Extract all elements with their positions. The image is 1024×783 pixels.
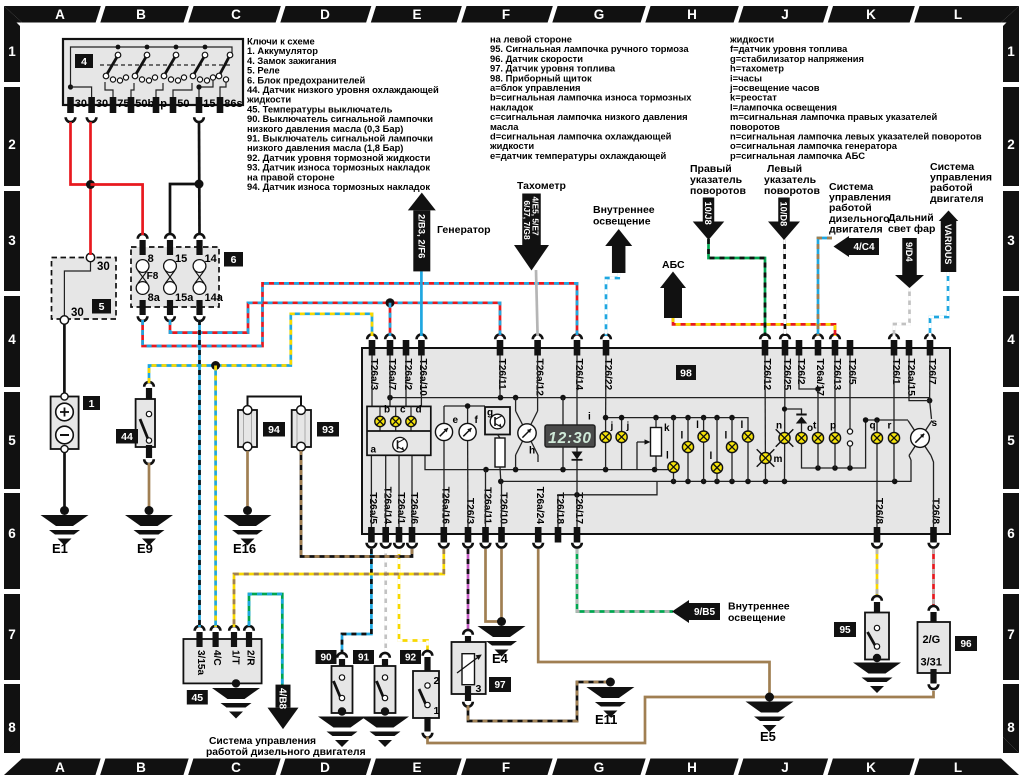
cluster top pin T26/14	[574, 340, 581, 356]
illumination lamp l1	[673, 418, 675, 482]
wire (cyan/yellow) junction to 44 / 45 / T26a/3	[149, 314, 372, 383]
svg-text:d: d	[416, 405, 422, 416]
svg-text:4: 4	[8, 332, 16, 347]
cluster top pin T26/7	[927, 340, 934, 356]
svg-text:l: l	[710, 451, 713, 462]
svg-text:96: 96	[960, 639, 972, 650]
label plate 98	[676, 365, 696, 380]
svg-text:10/J8: 10/J8	[703, 202, 713, 225]
block 45 terminal 1/T	[229, 626, 239, 631]
cluster top pin T26/5	[847, 340, 854, 356]
connector socket under terminal 15	[194, 117, 204, 122]
wire (red/gray) T26/8 to sensor 96	[932, 549, 935, 607]
rheostat k	[655, 418, 657, 470]
block 4 terminal 30 pin	[88, 97, 95, 113]
ground E4	[497, 617, 506, 626]
clock lamp j 2	[621, 418, 623, 470]
svg-text:T26a/12: T26a/12	[533, 359, 544, 397]
speedometer gauge s	[909, 355, 930, 401]
q r feed rail	[866, 419, 908, 421]
svg-text:T26/13: T26/13	[831, 359, 842, 391]
svg-text:c: c	[400, 405, 406, 416]
handbrake switch 95	[872, 596, 882, 601]
svg-text:T26a/24: T26a/24	[534, 487, 545, 525]
block 4 internal dashed line	[100, 64, 232, 66]
cluster top pin T26/2	[796, 340, 803, 356]
svg-text:D: D	[320, 7, 330, 22]
svg-text:4: 4	[81, 56, 87, 68]
cluster internal rail B (ground rail)	[501, 460, 911, 481]
ground E9	[145, 506, 154, 515]
svg-text:a: a	[371, 445, 377, 456]
svg-text:1: 1	[8, 44, 16, 59]
svg-text:3/15a: 3/15a	[195, 650, 206, 675]
svg-text:A: A	[55, 760, 65, 775]
ground E11	[606, 678, 615, 687]
cluster bottom pin T26/10	[498, 527, 505, 543]
svg-text:T26/14: T26/14	[573, 359, 584, 391]
arrow diesel control 4/C4	[834, 236, 850, 257]
ground under 90	[338, 707, 346, 715]
instrument cluster 98 box	[362, 348, 950, 534]
svg-text:E16: E16	[233, 541, 256, 556]
svg-text:j: j	[626, 421, 630, 432]
cluster internal rail 469	[425, 455, 668, 469]
svg-text:7: 7	[8, 627, 16, 642]
wire (black/white) left turn arrow 10/D8 to T26/25	[783, 239, 786, 336]
svg-text:1: 1	[1007, 44, 1015, 59]
arrow tachometer (4/E5, 5/E7 6/J7, 7/G8)	[522, 194, 541, 246]
svg-text:8: 8	[148, 253, 154, 265]
connector socket under terminal 30a	[66, 117, 76, 122]
svg-text:L: L	[954, 760, 962, 775]
svg-text:95: 95	[839, 625, 851, 636]
wire (brown) T26a/24 to E5	[538, 549, 769, 695]
block 45 terminal 4/C	[211, 626, 221, 631]
cluster bottom pin T26/8	[930, 527, 937, 543]
wire (black/brown) T26a/6 to sensor 93	[301, 451, 412, 557]
fuse 8/8a	[140, 240, 146, 255]
svg-text:B: B	[136, 7, 146, 22]
border frame left bar	[4, 10, 20, 82]
illumination lamp l2	[687, 418, 689, 482]
svg-text:T26a/10: T26a/10	[417, 359, 428, 397]
brake fluid level sensor 92	[423, 651, 433, 656]
relay 5 terminal 30 bottom	[60, 316, 68, 324]
oil pressure switch 90	[337, 653, 347, 658]
svg-text:r: r	[888, 421, 892, 432]
wire (violet/black) T26/3 to sensor 97	[467, 549, 470, 631]
wire (black) relay 5 to battery 1	[63, 325, 66, 394]
svg-text:p: p	[160, 98, 167, 110]
svg-text:3: 3	[476, 683, 482, 695]
svg-text:E11: E11	[595, 712, 617, 727]
right turn indicator lamp m	[764, 355, 767, 481]
svg-text:9/D4: 9/D4	[904, 242, 914, 262]
label plate 45	[187, 690, 208, 705]
wire (white) high beam arrow 9/D4 to T26/1	[894, 287, 910, 336]
arrow left turn signal 10/D8	[778, 198, 790, 222]
lamp b	[375, 416, 385, 426]
svg-text:e=датчик температуры охлаждающ: e=датчик температуры охлаждающей	[490, 150, 666, 161]
svg-text:l: l	[725, 431, 728, 442]
label plate 91	[353, 650, 374, 664]
clock lamp j 1	[605, 418, 607, 470]
block 45 terminal 3/15a	[195, 626, 205, 631]
svg-text:l: l	[666, 451, 669, 462]
connector socket under terminal 30b	[87, 117, 97, 122]
svg-text:2: 2	[1007, 137, 1015, 152]
svg-text:T26/25: T26/25	[781, 359, 792, 391]
wire (red/cyan) fuse 15a to T26/11 and T26a/7	[170, 303, 500, 336]
block 4 terminal 15 pin	[196, 97, 203, 113]
wire (green/black) right turn arrow 10/J8 to T26/12	[709, 239, 766, 336]
svg-text:86s: 86s	[224, 98, 242, 110]
ground E1	[60, 506, 69, 515]
switch 44	[144, 382, 154, 387]
label plate 96	[955, 636, 977, 651]
border frame right bar	[1003, 10, 1019, 82]
socket below fuse 15a	[165, 316, 175, 321]
block 4 switch gang 2	[145, 45, 150, 50]
cluster internal rail C	[606, 418, 748, 432]
voltage stabilizer g	[485, 407, 510, 435]
svg-text:4/B8: 4/B8	[276, 688, 287, 710]
diode under clock	[576, 447, 578, 452]
svg-text:J: J	[781, 760, 789, 775]
arrow interior light up	[605, 229, 632, 246]
brake pad sensor 93	[292, 410, 311, 447]
ground under 95	[873, 654, 881, 662]
svg-text:поворотов: поворотов	[764, 185, 820, 197]
lamp t	[817, 389, 819, 433]
wire e-f-g top link	[444, 405, 485, 407]
svg-text:15a: 15a	[175, 292, 194, 304]
cluster top pin T26/22	[603, 340, 610, 356]
svg-text:5: 5	[8, 433, 16, 448]
junction cyan/yellow	[211, 361, 220, 370]
svg-text:2/G: 2/G	[923, 634, 941, 646]
svg-text:i: i	[588, 412, 591, 423]
svg-text:e: e	[453, 415, 459, 426]
wire (cyan/brown) diesel control arrow 4/C4 to T26a/17	[818, 238, 832, 336]
svg-text:T26/11: T26/11	[496, 359, 507, 390]
wire (brown) 44 to ground E9	[148, 463, 151, 509]
fuel level sensor 97	[463, 630, 473, 635]
illumination lamp l5	[731, 418, 733, 482]
wire (red/cyan) fuse 8a to T26/14	[143, 283, 577, 346]
cluster top pin T26/25	[782, 340, 789, 356]
svg-text:92: 92	[405, 653, 417, 664]
cluster top pin T26a/3	[369, 340, 376, 356]
svg-text:93: 93	[322, 424, 334, 436]
cluster top pin T26a/15	[906, 340, 913, 356]
lamp r	[893, 355, 895, 433]
svg-text:T26/1: T26/1	[890, 359, 901, 385]
ground E16	[243, 506, 252, 515]
socket above fuse 8	[138, 234, 148, 239]
svg-text:3: 3	[8, 233, 16, 248]
block 45 terminal 2/R	[244, 626, 254, 631]
svg-text:T26/10: T26/10	[497, 492, 508, 524]
svg-text:2/B3, 2/F6: 2/B3, 2/F6	[415, 214, 426, 258]
label plate 93	[317, 422, 339, 437]
svg-text:K: K	[866, 760, 876, 775]
label plate 92	[400, 650, 421, 664]
label plate 95	[834, 622, 856, 637]
svg-text:9/B5: 9/B5	[694, 607, 716, 618]
gauge f	[467, 406, 469, 424]
svg-text:C: C	[231, 760, 241, 775]
svg-text:T26/7: T26/7	[926, 359, 937, 385]
resistor under g	[498, 435, 501, 439]
illumination lamp l4	[716, 418, 718, 482]
cluster bottom pin T26a/24	[535, 527, 542, 543]
svg-text:12:30: 12:30	[548, 430, 592, 447]
wire (cyan/black) fuse 14a to block 45 terminal 3/15a	[198, 320, 201, 627]
wire (cyan/black) T26a/5 to switch 90	[342, 549, 371, 654]
svg-text:p=сигнальная лампочка АБС: p=сигнальная лампочка АБС	[730, 150, 865, 161]
label plate 5	[92, 299, 111, 314]
svg-text:50b: 50b	[135, 98, 154, 110]
svg-text:Система управления: Система управления	[209, 736, 316, 747]
svg-text:T26/12: T26/12	[761, 359, 772, 391]
svg-text:s: s	[932, 418, 938, 429]
svg-text:2/R: 2/R	[245, 650, 256, 666]
svg-text:14a: 14a	[205, 292, 224, 304]
block 4 terminal 86s pin	[217, 97, 224, 113]
block 4 internal top rail	[71, 47, 233, 87]
svg-text:91: 91	[358, 653, 370, 664]
border frame top bar	[4, 6, 1019, 23]
svg-text:G: G	[594, 7, 605, 22]
svg-text:освещение: освещение	[728, 612, 786, 624]
wire (yellow/white) T26a/1 to sensor 92	[399, 549, 428, 652]
wire (brown) sensor 92 to E5	[428, 697, 769, 743]
svg-text:97: 97	[494, 680, 506, 691]
cluster bottom pin T26a/16	[441, 527, 448, 543]
wire (black) branch to fuse 15	[170, 184, 199, 235]
svg-text:T26/22: T26/22	[602, 359, 613, 391]
svg-text:G: G	[594, 760, 605, 775]
svg-text:6/J7, 7/G8: 6/J7, 7/G8	[522, 201, 532, 240]
svg-text:5: 5	[1007, 433, 1015, 448]
wire (yellow/gray) T26/8 to switch 95	[876, 549, 879, 597]
svg-text:H: H	[687, 760, 697, 775]
label plate 44	[116, 429, 138, 444]
svg-text:94: 94	[268, 424, 280, 436]
junction red	[86, 180, 95, 189]
svg-text:T26a/1: T26a/1	[395, 492, 406, 524]
svg-text:j: j	[610, 421, 614, 432]
cluster internal rail E	[558, 481, 657, 527]
temperature switch block 45	[183, 639, 261, 683]
relay 5 dashed box	[52, 258, 117, 320]
arrow VARIOUS engine control	[939, 211, 959, 222]
svg-text:T26a/15: T26a/15	[905, 359, 916, 397]
wire (cyan/white) VARIOUS arrow to T26/7	[930, 271, 948, 336]
brake pad sensor 94	[238, 410, 257, 447]
battery 1	[51, 397, 79, 450]
svg-text:E: E	[412, 7, 421, 22]
arrow ABS	[660, 272, 686, 289]
svg-text:l: l	[681, 431, 684, 442]
svg-text:c=сигнальная лампочка низкого: c=сигнальная лампочка низкого давления	[490, 111, 688, 122]
svg-text:T26/18: T26/18	[554, 492, 565, 524]
svg-text:5: 5	[99, 301, 105, 313]
gauge e	[443, 406, 445, 424]
svg-text:F: F	[502, 7, 510, 22]
svg-text:свет фар: свет фар	[888, 223, 935, 235]
cluster top pin T26a/17	[815, 340, 822, 356]
svg-text:h: h	[529, 446, 535, 457]
block 4 terminal 50 pin	[170, 97, 177, 113]
svg-text:E1: E1	[52, 541, 68, 556]
svg-text:поворотов: поворотов	[690, 185, 746, 197]
svg-text:90: 90	[320, 653, 332, 664]
wire (yellow/brown) T26a/16 to block 45 terminal 1/T	[234, 549, 444, 627]
wire (red) battery feed from terminal 30a	[71, 122, 89, 185]
block 4 internal contact wires	[105, 82, 113, 97]
label plate 94	[263, 422, 285, 437]
arrow right turn signal 10/J8	[703, 198, 715, 222]
svg-text:30: 30	[97, 261, 110, 273]
cluster bottom pin T26a/5	[368, 527, 375, 543]
svg-text:T26a/5: T26a/5	[367, 492, 378, 524]
generator lamp o with diode	[799, 355, 818, 389]
svg-text:АБС: АБС	[662, 259, 685, 271]
relay 5 internal wire	[64, 262, 90, 316]
block 4 terminal 75 pin	[110, 97, 117, 113]
svg-text:T26/2: T26/2	[795, 359, 806, 385]
svg-text:H: H	[687, 7, 697, 22]
block 4 switch gang 1	[116, 45, 121, 50]
wire (cyan/white) interior light arrow to T26/22	[606, 272, 619, 336]
svg-text:8: 8	[1007, 720, 1015, 735]
svg-text:E5: E5	[760, 729, 776, 744]
cluster bottom pin T26a/1	[396, 527, 403, 543]
svg-text:2: 2	[8, 137, 16, 152]
svg-text:F8: F8	[147, 271, 159, 282]
block a transistor symbol	[393, 437, 408, 452]
svg-text:15: 15	[203, 98, 215, 110]
cluster top pin T26/13	[832, 340, 839, 356]
svg-text:T26a/7: T26a/7	[386, 359, 397, 391]
cluster bottom pin T26/18	[555, 527, 562, 543]
svg-text:Тахометр: Тахометр	[517, 180, 566, 192]
svg-text:C: C	[231, 7, 241, 22]
svg-text:4/C4: 4/C4	[853, 242, 875, 253]
wire battery to ground E1	[63, 453, 66, 509]
svg-text:6: 6	[1007, 526, 1015, 541]
cluster bottom pin T26/3	[465, 527, 472, 543]
lamp d	[406, 416, 416, 426]
wire (red/cyan) branch to T26a/7	[389, 303, 392, 336]
svg-text:T26a/2: T26a/2	[402, 359, 413, 391]
label plate 97	[489, 677, 511, 692]
wire (black/brown) sensor 97 to ground E11	[468, 682, 608, 721]
svg-text:работой дизельного двигателя: работой дизельного двигателя	[206, 746, 366, 758]
svg-text:50: 50	[177, 98, 189, 110]
svg-text:44: 44	[121, 431, 133, 443]
socket below fuse 14a	[195, 316, 205, 321]
socket below fuse 8a	[138, 316, 148, 321]
cluster internal rail D	[802, 420, 866, 468]
svg-text:6: 6	[8, 526, 16, 541]
label plate 6	[224, 252, 243, 267]
ground under 91	[381, 707, 389, 715]
svg-text:3/31: 3/31	[921, 657, 942, 669]
cluster bottom pin T26a/6	[409, 527, 416, 543]
svg-text:T26a/3: T26a/3	[368, 359, 379, 391]
speed sensor 96	[929, 606, 939, 611]
cluster top pin T26/1	[891, 340, 898, 356]
svg-text:1/T: 1/T	[230, 650, 241, 664]
svg-text:E4: E4	[492, 651, 509, 666]
svg-text:m: m	[774, 454, 783, 465]
svg-text:30: 30	[71, 307, 84, 319]
socket above fuse 15	[165, 234, 175, 239]
fuse 15/15a	[167, 240, 173, 255]
relay 5 terminal 30 top	[86, 253, 94, 261]
svg-text:T26/5: T26/5	[846, 359, 857, 385]
label plate 1	[83, 396, 100, 410]
ignition switch block 4	[63, 39, 243, 105]
wire (cyan/yellow) branch to 45 terminal 4/C	[214, 366, 217, 628]
svg-text:30: 30	[96, 98, 108, 110]
wire (green/gray) T26/17 to interior light arrow 9/B5	[577, 549, 673, 612]
svg-text:D: D	[320, 760, 330, 775]
arrow generator (2/B3, 2/F6)	[408, 193, 436, 211]
svg-text:E: E	[412, 760, 421, 775]
svg-text:B: B	[136, 760, 146, 775]
svg-text:E9: E9	[137, 541, 153, 556]
svg-text:14: 14	[205, 253, 218, 265]
block 4 terminal p pin	[153, 97, 160, 113]
ABS lamp p	[834, 355, 836, 433]
svg-text:15: 15	[175, 253, 187, 265]
illumination lamp l6	[747, 431, 749, 481]
svg-text:Внутреннее: Внутреннее	[593, 204, 655, 216]
cluster internal T26a/11 T26/10 stems	[485, 470, 487, 527]
svg-text:T26a/16: T26a/16	[440, 487, 451, 525]
svg-text:k: k	[664, 423, 670, 434]
cluster internal rail A	[390, 398, 930, 401]
block 45 ground	[232, 679, 240, 687]
svg-text:l: l	[696, 420, 699, 431]
cluster top pin T26a/12	[534, 340, 541, 356]
wire (red) terminal 30b down to relay 5	[89, 122, 92, 255]
arrow high beam 9/D4	[902, 238, 917, 275]
svg-text:45: 45	[191, 692, 203, 704]
wire (brown) T26a/11 to E4	[486, 549, 500, 622]
label plate 90	[316, 650, 337, 664]
svg-text:g: g	[487, 408, 493, 419]
svg-text:L: L	[954, 7, 962, 22]
svg-text:T26/8: T26/8	[929, 498, 940, 524]
cluster top pin T26/12	[762, 340, 769, 356]
wire (brown) 94 to ground E16	[246, 451, 249, 509]
svg-text:94. Датчик износа тормозных на: 94. Датчик износа тормозных накладок	[247, 181, 430, 192]
wire (brown) E5 to sensor 96	[770, 691, 934, 697]
wire (red) junction to fuse 8	[91, 185, 143, 236]
svg-text:Внутреннее: Внутреннее	[728, 601, 790, 613]
block 4 switch gang 4	[203, 45, 208, 50]
cluster bottom pin T26/17	[574, 527, 581, 543]
svg-text:F: F	[502, 760, 510, 775]
wire (white) T26a/14 to switch 91	[384, 549, 387, 654]
cluster bottom pin T26/8	[874, 527, 881, 543]
